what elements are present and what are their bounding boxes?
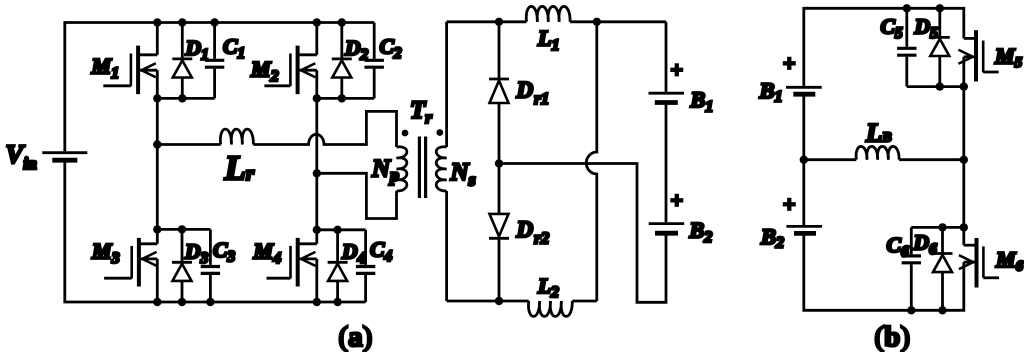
capacitor C4 [356,230,375,302]
svg-text:B1: B1 [759,78,783,106]
diode D2 [332,23,352,99]
junction dot node A at Lr [153,140,161,148]
wire: B1 to B2 [665,104,668,222]
wire: C5 D5 cell bottom rail [907,85,964,88]
svg-text:C5: C5 [881,15,903,43]
wire: secondary bottom lead [445,191,448,301]
wire: circuit b left rail to bottom rail to M6 source [804,235,964,310]
wire: M1 cell bottom rail [157,97,214,100]
battery B2 of circuit a [649,224,685,234]
transistor M4 [267,238,317,287]
svg-text:B1: B1 [690,87,714,116]
svg-text:D6: D6 [913,231,938,259]
capacitor C2 [365,23,384,99]
junction dots circuit b [800,4,968,314]
svg-text:Np: Np [371,156,399,186]
svg-text:Tr: Tr [410,97,432,127]
wire: C6 D6 cell top rail [911,226,964,229]
transformer secondary winding Ns [436,147,446,191]
svg-text:Ns: Ns [450,159,476,190]
svg-text:D5: D5 [914,15,939,43]
capacitor C3 [201,229,220,302]
svg-text:M6: M6 [995,247,1024,275]
battery B2 of circuit b [786,226,822,233]
diode Dr1 [489,22,509,164]
wire: M1 drain leg [156,23,159,55]
junction dots M1 M2 cell bottom rails [153,94,346,102]
wire: center tap node to battery branch with corner at right [499,164,666,303]
capacitor C6 [902,227,921,310]
polarity dot primary [402,130,409,137]
diode D4 [328,230,348,302]
svg-text:C2: C2 [380,35,402,63]
wire: M5 source leg down to LB [962,57,965,160]
svg-text:M1: M1 [91,54,120,83]
svg-text:+: + [671,57,684,82]
inductor L1 [526,6,570,21]
wire: Lr to transformer primary top with crossover hop at node B leg [253,111,396,147]
wire: secondary top rail left of L1 [447,20,527,23]
diode D6 [933,227,953,310]
wire: L1 junction leg with crossover hop [586,22,597,301]
wire: LB rail right segment [899,158,964,161]
wire: M2 source leg down through node B to M4 drain [315,70,318,244]
inductor Lr [220,129,253,144]
junction dots secondary rails [495,18,601,306]
svg-text:B2: B2 [689,218,713,247]
wire: circuit b left rail B1 to B2 [802,96,805,225]
svg-text:Dr2: Dr2 [516,217,550,248]
svg-text:Lr: Lr [224,149,255,188]
diode Dr2 [489,164,509,302]
wire: bottom rail of bridge (a) from Vin to C4 [65,160,366,302]
wire: input loop left rail and top rail of bridge (a) [65,23,374,152]
wire: secondary top lead [445,22,448,147]
wire: LB rail left segment [804,158,857,161]
svg-text:+: + [783,192,796,217]
svg-text:+: + [671,188,684,213]
svg-text:+: + [783,51,796,76]
voltage source Vin battery [42,153,87,161]
svg-text:(a): (a) [339,321,373,352]
wire: M2 cell bottom rail [317,97,374,100]
inductor L2 [528,301,572,316]
transistor M1 [103,46,157,95]
transformer Tr primary winding Np [397,147,407,191]
svg-text:B2: B2 [760,224,784,252]
junction dots M3 M4 cell top rails [153,225,342,234]
junction dots circuit a bottom rail [153,298,342,306]
transistor M5 [958,30,998,81]
wire: M4 source leg to bottom rail [315,259,318,302]
diode D1 [172,23,192,99]
svg-text:C1: C1 [223,35,245,63]
transistor M3 [104,238,157,287]
svg-text:D4: D4 [341,240,366,268]
svg-text:M3: M3 [91,239,120,268]
svg-text:C6: C6 [887,233,909,261]
capacitor C1 [205,23,224,99]
wire: secondary bottom rail left of L2 [447,300,529,303]
wire: LB down to M6 drain [962,160,965,246]
wire: node A to Lr [157,143,220,146]
svg-text:L1: L1 [537,26,559,55]
wire: M3 cell top rail [157,228,210,231]
svg-text:L2: L2 [537,274,559,301]
wire: secondary top rail right of L1 [570,20,666,23]
inductor LB [856,146,899,159]
wire: circuit b left rail top to B1 and top rail to M5 drain [804,8,964,86]
svg-text:C3: C3 [213,238,235,266]
svg-text:Vin: Vin [6,139,37,173]
wire: M2 drain leg [315,23,318,55]
svg-text:Dr1: Dr1 [516,78,550,109]
svg-text:M2: M2 [250,57,279,86]
battery B1 of circuit a [649,93,685,102]
transistor M2 [264,46,316,95]
wire: right rail top to B1 [665,22,668,92]
capacitor C5 [897,8,916,86]
svg-text:M5: M5 [994,44,1023,72]
svg-text:D3: D3 [184,240,209,268]
diode D3 [172,229,192,302]
svg-text:M4: M4 [253,239,282,268]
wire: node B branch to transformer primary bottom [317,173,397,218]
wire: secondary bottom rail right of L2 [572,300,597,303]
junction dot node B at primary return [313,169,321,177]
wire: M4 cell top rail [317,228,366,231]
transistor M6 [959,238,999,288]
transformer core [419,137,425,199]
svg-text:C4: C4 [370,238,392,266]
wire: M3 source leg to bottom rail [156,259,159,302]
svg-text:LB: LB [865,118,892,148]
battery B1 of circuit b [786,87,822,94]
junction dots circuit a top rail [153,18,346,26]
svg-text:(b): (b) [875,321,910,352]
diode D5 [930,8,950,86]
wire: M1 source leg down through node A to M3 drain [156,70,159,244]
polarity dot secondary [436,129,443,136]
